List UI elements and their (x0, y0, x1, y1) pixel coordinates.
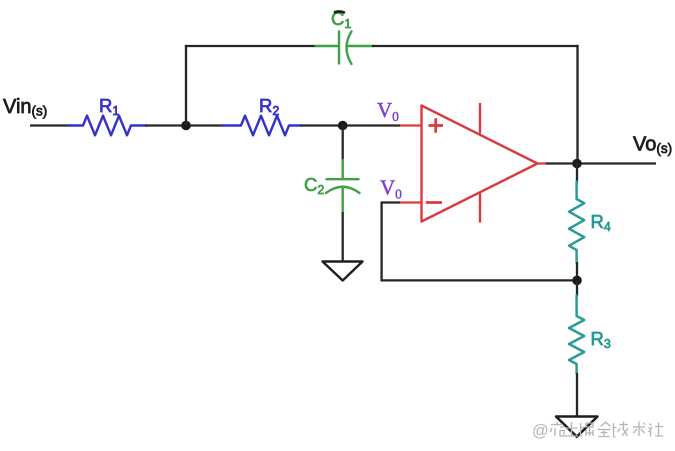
wire R3 to ground (576, 373, 578, 416)
resistor R2 (223, 116, 302, 136)
wire red + input segment (400, 124, 422, 126)
op-amp plus input symbol (429, 118, 444, 133)
capacitor C1 (316, 32, 374, 65)
op-amp bottom power pin (479, 193, 481, 223)
wire R1 to junction A to R2 (146, 124, 224, 126)
C1 label dark top artifact (334, 11, 345, 12)
wire red output segment (538, 162, 548, 164)
wire red - input segment (399, 201, 422, 203)
ground under C2 (323, 262, 363, 281)
capacitor C2 (326, 160, 360, 213)
resistor R1 (69, 116, 147, 136)
node junction C (572, 276, 582, 286)
wire input stub (30, 124, 71, 126)
resistor R3 (569, 296, 584, 374)
resistor R4 (569, 182, 584, 263)
wire junction B down to C2 (342, 126, 344, 162)
wire top branch left of C1 (185, 45, 317, 47)
node junction A (181, 121, 191, 131)
wire junction C to R3 (576, 280, 578, 296)
node junction B (338, 121, 348, 131)
watermark (532, 422, 663, 441)
ground under R3 (556, 417, 598, 437)
wire R4 to junction C (576, 262, 578, 280)
op-amp U1 (422, 103, 538, 223)
wire C2 to ground (342, 212, 344, 261)
wire output run (546, 162, 656, 164)
wire output node to R4 (576, 164, 578, 183)
svg-text:@: @ (532, 422, 549, 440)
wire R2 to junction B to op-amp (301, 124, 401, 126)
wire down to output node (576, 45, 578, 165)
op-amp top power pin (479, 103, 481, 134)
wire top branch right of C1 (372, 45, 579, 47)
wire junction A up to top branch (185, 45, 187, 126)
op-amp minus input symbol (426, 201, 442, 204)
wire feedback bottom run (381, 279, 578, 281)
wire feedback left corner (382, 203, 400, 282)
node output (572, 159, 582, 169)
